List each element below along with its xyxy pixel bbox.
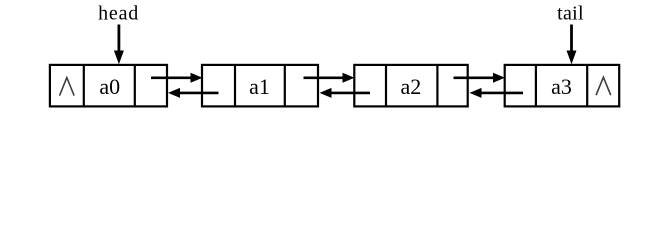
svg-text:head: head bbox=[98, 3, 139, 25]
node a0 box bbox=[50, 65, 167, 107]
next pointer arrow a0 to a1 bbox=[151, 73, 203, 83]
svg-text:a2: a2 bbox=[401, 74, 422, 99]
prev pointer arrow a2 to a1 bbox=[320, 88, 371, 98]
node a1 box bbox=[202, 65, 318, 107]
next pointer arrow a2 to a3 bbox=[454, 73, 506, 83]
svg-text:a0: a0 bbox=[99, 74, 120, 99]
tail pointer arrow bbox=[567, 25, 577, 65]
svg-text:a3: a3 bbox=[551, 74, 572, 99]
head pointer arrow bbox=[114, 25, 124, 65]
prev pointer arrow a1 to a0 bbox=[168, 88, 219, 98]
prev pointer arrow a3 to a2 bbox=[470, 88, 524, 98]
node a2 box bbox=[354, 65, 467, 107]
svg-text:tail: tail bbox=[557, 3, 584, 25]
svg-text:a1: a1 bbox=[249, 74, 270, 99]
node a3 null-next wedge bbox=[596, 77, 610, 94]
node a3 box bbox=[505, 65, 620, 107]
next pointer arrow a1 to a2 bbox=[304, 73, 355, 83]
node a0 null-prev wedge bbox=[60, 78, 74, 95]
